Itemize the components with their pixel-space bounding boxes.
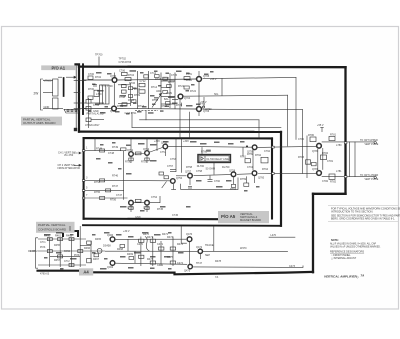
transistor Q753 (163, 144, 168, 149)
svg-text:R717: R717 (168, 81, 175, 84)
svg-text:VIA J700: VIA J700 (64, 154, 74, 157)
svg-text:R468: R468 (117, 248, 124, 251)
board boundary: bottom edge left part (38, 270, 80, 272)
transistor Q751 (129, 152, 134, 157)
ladder left rail (137, 71, 139, 109)
svg-text:R478: R478 (215, 260, 222, 263)
wire drop x180 (179, 100, 181, 138)
svg-text:Q462: Q462 (107, 266, 114, 269)
svg-text:T700: T700 (101, 85, 107, 88)
svg-text:7A: 7A (215, 275, 218, 279)
svg-text:VR600: VR600 (44, 79, 52, 83)
svg-text:R749: R749 (112, 146, 119, 149)
wire Q755-Q756 (134, 202, 144, 204)
ladder rung box R712 (139, 83, 145, 86)
svg-text:L470: L470 (271, 234, 277, 237)
svg-text:R758: R758 (186, 166, 193, 169)
wire A5 top drop x181 (181, 139, 183, 173)
transistor Q706 (197, 107, 202, 112)
transformer T700 winding a (102, 85, 104, 104)
bottom extra wire v x135 (134, 251, 136, 263)
delay line divider (204, 156, 206, 161)
wire top feedback upper (203, 78, 296, 79)
svg-text:C700: C700 (88, 73, 95, 76)
bottom strip extra wire y245 (80, 245, 91, 247)
resistor R703 (88, 96, 93, 99)
svg-text:OUTPUT AMPL BOARD: OUTPUT AMPL BOARD (23, 121, 56, 125)
board boundary: A5 inner rect right (271, 138, 273, 218)
resistor Rb6 (78, 250, 83, 253)
bottom extra box h (120, 245, 125, 248)
interconnect tick r1 (74, 80, 86, 82)
svg-text:P701: P701 (200, 104, 206, 106)
transistor Q760 (252, 171, 257, 176)
svg-text:GND: GND (135, 216, 141, 219)
wire row119 (91, 119, 104, 121)
resistor Rc1 (139, 239, 144, 242)
connector pin c (75, 110, 77, 112)
wire drop x189 (189, 112, 191, 138)
svg-text:C474: C474 (177, 262, 184, 265)
dashed gang line (135, 110, 158, 112)
transistor Q756 (145, 200, 150, 205)
resistor Rb2 (58, 238, 63, 241)
svg-text:C745: C745 (172, 214, 179, 217)
resistor R717 (167, 85, 172, 88)
transistor Q701 (112, 106, 117, 111)
row wire y256 (50, 255, 80, 257)
svg-text:1 OF 2: 1 OF 2 (30, 250, 38, 253)
wire right amp out lower (322, 176, 374, 178)
cable vertical b (354, 142, 356, 177)
resistor R833 (86, 118, 91, 122)
svg-text:Q757: Q757 (185, 171, 192, 174)
pot rung 2 (161, 96, 175, 98)
pot arrow A5 (162, 182, 167, 189)
svg-text:ALL R VALUES IN OHMS, K=1000.: ALL R VALUES IN OHMS, K=1000. ALL CAP (330, 242, 377, 245)
svg-text:CH 2 VERT SIG: CH 2 VERT SIG (58, 164, 76, 167)
connector bar J1 (63, 78, 65, 96)
svg-text:R702: R702 (95, 76, 102, 79)
label VERTICAL OUTPUT board (21, 117, 62, 126)
wire bottom y237 (269, 236, 295, 238)
stub Q760 down (254, 176, 256, 183)
faint rule lower (328, 220, 398, 222)
wire top feedback lower (203, 108, 303, 110)
wire right amp out upper (322, 141, 374, 143)
wire drop x213 (213, 227, 215, 252)
wire vertical drop x296 (295, 78, 297, 140)
wire mid row (43, 92, 53, 94)
extra labels right amp (298, 138, 342, 183)
svg-text:TO CRT LOWER: TO CRT LOWER (360, 174, 378, 177)
transistor Q705 (197, 77, 202, 82)
main path wire Q758-Q759 (237, 173, 252, 176)
wire row y251 right (105, 250, 197, 252)
svg-text:ATTEN ASSY: ATTEN ASSY (85, 124, 100, 127)
resistor Rb5 (58, 255, 63, 258)
board boundary: bottom edge right part (93, 272, 313, 274)
wire A5 out upper to right amp (274, 145, 316, 148)
delay line DL700 inner (199, 156, 229, 161)
resistor R708 (122, 84, 127, 87)
connector trapezoid P600 (64, 109, 80, 113)
row wire y265 (38, 264, 86, 266)
wire link x204 (203, 97, 205, 107)
resistor Rc4 (170, 247, 175, 250)
pin square p4 (82, 197, 84, 199)
board boundary: outer loop right vertical (280, 132, 282, 226)
board boundary: outer loop bottom (83, 224, 281, 227)
ladder rail x60 (59, 238, 61, 267)
transistor Q781 (317, 171, 322, 176)
board boundary: A4 right edge (344, 67, 346, 194)
svg-text:VALUES IN uF UNLESS OTHERWISE: VALUES IN uF UNLESS OTHERWISE MARKED. (330, 245, 381, 248)
svg-text:Q473: Q473 (184, 270, 191, 273)
svg-text:R469: R469 (127, 253, 134, 256)
pot rung extra 1 (161, 87, 170, 89)
transistor Qb3 (187, 237, 192, 242)
wire in upper (84, 79, 111, 81)
supply +55 symbol (321, 128, 323, 133)
transistor Qb2 (110, 261, 115, 266)
wire Q780-Q781 right (322, 148, 324, 170)
bottom strip extra box g (94, 254, 99, 257)
main path wire DL to Q758 (194, 175, 231, 176)
svg-text:Q472: Q472 (196, 246, 203, 249)
svg-text:Q470: Q470 (186, 233, 193, 236)
svg-text:POS: POS (74, 254, 80, 257)
wire pin4 row (85, 197, 128, 199)
capacitor C760 stub (209, 176, 211, 180)
svg-text:C753: C753 (170, 158, 177, 161)
svg-text:R465: R465 (95, 238, 102, 241)
resistor R710 (122, 103, 127, 106)
pin square A5 right lower (272, 173, 275, 175)
svg-text:C715: C715 (171, 74, 178, 77)
component column x91 (90, 241, 92, 263)
wire drop x70 to switch (69, 226, 71, 231)
wire drop x259 (258, 120, 260, 139)
svg-text:C760: C760 (214, 180, 221, 183)
wire vertical x123 (122, 151, 124, 200)
svg-text:C761: C761 (247, 166, 254, 169)
resistor R765 (159, 172, 164, 175)
resistor Rb9 (87, 258, 92, 262)
resistor Rb3 (69, 238, 74, 241)
pin square A5 right upper (272, 146, 275, 148)
wire DL top feed (201, 147, 203, 155)
pot rail extra (169, 73, 171, 108)
wire Qb3 to Qb4 (189, 241, 191, 263)
svg-text:P/O A5: P/O A5 (221, 214, 236, 219)
svg-text:Q705: Q705 (203, 75, 210, 78)
svg-text:Q700: Q700 (110, 75, 117, 78)
svg-text:W470: W470 (240, 247, 247, 250)
resistor R709 (122, 90, 127, 93)
svg-text:C472: C472 (157, 264, 164, 267)
resistor Rb1 (47, 238, 52, 241)
svg-text:+30V: +30V (154, 140, 160, 143)
wire in lower (84, 108, 111, 110)
left col box b (100, 179, 105, 182)
wire drop to Q752 (146, 139, 148, 151)
svg-text:C747: C747 (116, 194, 123, 197)
svg-text:R747: R747 (112, 185, 119, 188)
resistor Rc5 (139, 255, 144, 258)
svg-text:Q754: Q754 (176, 177, 183, 180)
feedback loop vertical (180, 184, 182, 190)
wire lower path (117, 108, 196, 111)
transistor Q754 (171, 179, 176, 184)
wire Q704 stub (172, 99, 178, 101)
bottom extra box i (129, 257, 134, 260)
transistor Q759 (252, 145, 257, 150)
ladder2 rail x152 (152, 237, 154, 267)
board boundary: A5 inner rect left (83, 138, 85, 219)
resistor A5 e5 (231, 185, 235, 188)
extra labels A5 (86, 146, 271, 219)
resistor R760 label (206, 150, 211, 152)
ladder mid rail (130, 83, 132, 106)
ground stub Q754 (173, 184, 175, 190)
resistor R781 (329, 136, 335, 140)
wire Q759 out right (257, 146, 271, 148)
resistor A5 e1 (129, 158, 133, 161)
wire drop x80 (79, 226, 81, 238)
capacitor C757 plates (170, 169, 176, 171)
svg-text:R750: R750 (125, 161, 132, 164)
transistor Qb5 (198, 249, 202, 253)
wire A5 top drop x157 (156, 139, 158, 152)
svg-text:50 OHM: 50 OHM (206, 167, 215, 170)
ground bar Q754 (171, 189, 176, 191)
ladder2 rail x140 (140, 237, 142, 267)
resistor R719b (166, 102, 171, 105)
svg-text:DL700 DELAY LINE: DL700 DELAY LINE (207, 158, 230, 161)
signal arrow CH2 (74, 164, 81, 166)
resistor A5 e3 (129, 207, 133, 210)
svg-text:DL700: DL700 (222, 166, 230, 169)
wire vertical drop x287 (287, 95, 289, 146)
svg-text:REFERENCE DESIGNATORS: REFERENCE DESIGNATORS (330, 250, 364, 253)
pin square right edge lower (344, 176, 347, 178)
wire xtra y103 (118, 103, 131, 105)
dark blob connector (74, 128, 77, 131)
wire vbus (88, 98, 90, 128)
svg-text:R718: R718 (152, 99, 159, 102)
svg-text:R781: R781 (330, 134, 337, 137)
svg-text:+55 V: +55 V (210, 78, 217, 81)
left col box a (100, 149, 105, 152)
transistor Q755 (129, 200, 134, 205)
wire y120 (140, 119, 260, 121)
cap C714 plates (154, 97, 158, 99)
resistor Rb4 (47, 250, 52, 253)
svg-text:VERTICAL AMPLIFIER: VERTICAL AMPLIFIER (324, 274, 358, 278)
svg-text:C706 R706: C706 R706 (119, 61, 132, 64)
wire drop x243 (242, 147, 244, 156)
svg-text:Q704: Q704 (184, 97, 191, 100)
svg-text:R721: R721 (178, 85, 185, 88)
row wire y251 (38, 250, 105, 252)
svg-text:R467: R467 (93, 258, 100, 261)
ladder right rail (148, 71, 150, 109)
crossover curve (145, 237, 150, 252)
pin square p2 (82, 180, 84, 182)
resistor R762 (261, 157, 268, 163)
main path wire left of DL (176, 175, 187, 177)
svg-text:Q780: Q780 (312, 150, 319, 153)
board boundary: A1/A4 interconnect vertical 2 (82, 64, 84, 114)
resistor R831 (86, 100, 91, 104)
pin square p1 (82, 150, 84, 152)
svg-text:C473: C473 (289, 265, 296, 268)
pot ladder left rail (160, 73, 162, 109)
ladder rail x71 (71, 238, 73, 267)
note block NOTE (330, 239, 381, 260)
bracket front panel (36, 238, 38, 268)
svg-text:R756: R756 (110, 199, 117, 202)
board boundary: jog at right (313, 193, 346, 195)
ladder rail x49 (49, 238, 51, 267)
junction mark near Q759 (246, 146, 248, 148)
transistor Q758 (231, 172, 236, 177)
board boundary: A1/A4 interconnect vertical 1 (76, 64, 80, 131)
svg-text:R755: R755 (94, 191, 101, 194)
svg-text:SEP: SEP (205, 254, 210, 257)
svg-text:Q758: Q758 (229, 170, 236, 173)
ladder2 rail x173 (172, 237, 174, 267)
svg-text:4790-03: 4790-03 (40, 273, 50, 276)
interconnect tick r3 (74, 102, 86, 104)
stub A5 Q753 down (164, 149, 166, 156)
wire drop x146 (145, 111, 147, 120)
arrow head 1 (74, 76, 76, 78)
svg-text:R762: R762 (255, 154, 262, 157)
resistor Rb7 (69, 264, 74, 267)
svg-text:C748: C748 (108, 152, 115, 155)
svg-text:R760: R760 (201, 151, 208, 154)
transformer T700 winding b (105, 85, 107, 104)
right amp stub a (307, 163, 311, 165)
svg-text:R704: R704 (128, 74, 135, 77)
svg-text:R764: R764 (262, 168, 269, 171)
arrow to amp 2 (58, 76, 62, 78)
svg-text:R759: R759 (240, 178, 247, 181)
pot arrowhead (159, 94, 161, 96)
wire Q752-Q753 (150, 148, 162, 153)
svg-text:△ INTERNAL ADJUST: △ INTERNAL ADJUST (331, 257, 357, 260)
svg-text:7A: 7A (361, 273, 365, 277)
wire row y263 right (116, 263, 188, 264)
pin square p3 (82, 190, 84, 192)
stub A5 Q756 down (146, 205, 148, 212)
svg-text:GND: GND (93, 110, 99, 113)
switch bracket S458 (63, 231, 78, 236)
svg-text:R763: R763 (230, 188, 237, 191)
bottom extra wire v x128 (127, 239, 129, 251)
svg-text:POS: POS (40, 246, 46, 249)
wire vertical x307 (306, 136, 308, 179)
end circle lower (374, 176, 376, 178)
svg-text:C712: C712 (140, 80, 147, 83)
resistor R720 (184, 77, 190, 80)
delay line DL700 outer (198, 155, 230, 163)
connector pin a (67, 110, 69, 112)
svg-text:R700: R700 (88, 88, 95, 91)
wire bus y127 (132, 126, 281, 128)
wire vertical drop x302 (302, 110, 304, 174)
extra labels bottom (40, 234, 247, 269)
svg-text:A4: A4 (83, 270, 89, 275)
svg-text:R471: R471 (147, 236, 154, 239)
svg-text:R780: R780 (308, 134, 315, 137)
svg-text:BERS. GRID COORDINATES ARE GIV: BERS. GRID COORDINATES ARE GIVEN IN TABL… (331, 217, 395, 220)
wire top feedback mid (184, 95, 288, 96)
label VERTICAL CONTROLS board (36, 222, 75, 233)
resistor R761 (245, 159, 250, 163)
svg-text:C782: C782 (322, 180, 329, 183)
transformer T700 (100, 85, 110, 104)
svg-text:C751: C751 (160, 151, 167, 154)
svg-text:L781: L781 (336, 170, 342, 173)
transistor Q757 (188, 173, 193, 178)
end circle upper (374, 142, 376, 144)
svg-text:C712: C712 (150, 72, 157, 75)
svg-text:R715: R715 (155, 78, 162, 81)
main path wire Q759 out (258, 172, 272, 174)
resistor R715 (155, 75, 160, 78)
label A4 (79, 268, 93, 275)
svg-text:C780: C780 (298, 138, 305, 141)
wire VR row (43, 80, 53, 82)
transistor Q700 (112, 78, 117, 83)
resistor Rb8 (87, 241, 92, 244)
right amp box f (312, 162, 317, 165)
svg-text:R466: R466 (84, 247, 91, 250)
board boundary: A5 inner rect bottom (84, 218, 218, 221)
svg-text:R457: R457 (54, 259, 61, 262)
resistor R716c (163, 90, 168, 93)
ladder rung box C712 (144, 75, 148, 78)
capacitor C760 plates (208, 179, 213, 181)
stub Q758 down (233, 177, 235, 184)
stub Q704 down (181, 103, 183, 107)
row wire y239 (38, 238, 86, 240)
svg-text:Q751: Q751 (127, 149, 134, 152)
ladder rung box R713 (139, 90, 145, 93)
resistor column box R600 (53, 79, 58, 96)
transistor Qb1 (110, 237, 115, 242)
resistor R701 (88, 76, 93, 79)
resistor R780 (310, 137, 316, 142)
svg-text:+30V: +30V (183, 140, 189, 143)
resistor R752 (136, 152, 142, 155)
resistor R783 (306, 160, 311, 164)
svg-text:C754: C754 (151, 196, 158, 199)
svg-text:BAL: BAL (164, 98, 169, 101)
svg-text:R757: R757 (141, 161, 148, 164)
svg-text:CH 1: CH 1 (40, 241, 46, 244)
svg-text:R461: R461 (55, 235, 62, 238)
svg-text:CONTROLS BOARD: CONTROLS BOARD (38, 227, 67, 231)
resistor A5 e2 (145, 158, 149, 161)
labels bottom misc (30, 230, 296, 273)
wire pin1 row (85, 150, 121, 152)
feedback loop wire (181, 178, 239, 190)
capacitor C706 box (122, 72, 128, 75)
